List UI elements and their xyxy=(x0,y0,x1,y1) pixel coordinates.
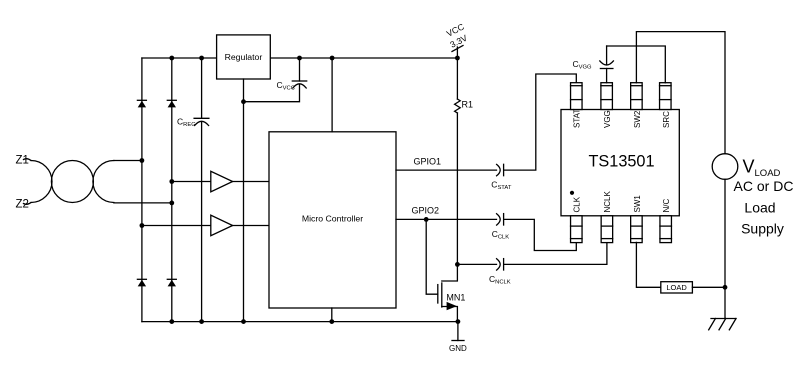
transformer T1 xyxy=(31,161,114,203)
wire transformer top lead xyxy=(114,160,142,162)
buffer A1 xyxy=(211,171,233,192)
svg-text:NCLK: NCLK xyxy=(603,190,612,212)
svg-text:AC or DC: AC or DC xyxy=(734,178,794,194)
junction top lead / column1 xyxy=(140,158,145,163)
pin NCLK xyxy=(601,190,613,242)
wire buffer A2 input xyxy=(142,225,211,227)
wire CCLK to CLK pin xyxy=(505,219,577,250)
load LOAD xyxy=(661,282,693,293)
ground GND xyxy=(452,322,464,341)
svg-text:SW2: SW2 xyxy=(633,110,642,128)
junction top rail column2 xyxy=(169,56,174,61)
pin STAT xyxy=(571,83,583,128)
wire load supply negative xyxy=(724,179,726,287)
junction NCLK node xyxy=(455,262,460,267)
microcontroller U3 xyxy=(269,132,396,308)
wire microcontroller to ground rail xyxy=(331,308,333,322)
wire CVCC bottom return xyxy=(244,84,300,102)
junction top rail CVCC xyxy=(297,56,302,61)
junction buffer A2 input xyxy=(140,223,145,228)
wire CVGG top xyxy=(606,46,608,65)
wire VCC to R1 xyxy=(456,58,458,99)
resistor R1 xyxy=(455,99,461,113)
junction MN1 source / ground rail xyxy=(456,319,461,324)
wire VCC to microcontroller xyxy=(331,58,333,132)
capacitor CVCC xyxy=(292,81,306,88)
node Z2 xyxy=(24,203,32,205)
svg-text:N/C: N/C xyxy=(662,199,671,213)
svg-text:Z1: Z1 xyxy=(16,155,29,167)
wire rectifier column 2 xyxy=(171,58,173,322)
junction supply return xyxy=(723,285,728,290)
junction buffer A1 input xyxy=(169,179,174,184)
junction bottom rail column4 xyxy=(241,319,246,324)
diode D4 xyxy=(167,279,176,286)
op-amp U1 TS13501 body xyxy=(561,110,679,216)
transistor MN1 xyxy=(438,264,458,321)
svg-text:Supply: Supply xyxy=(741,221,784,237)
wire buffer A2 output xyxy=(233,225,269,227)
source VLOAD xyxy=(712,154,738,180)
svg-text:TS13501: TS13501 xyxy=(588,153,654,171)
wire buffer A1 output xyxy=(233,181,269,183)
wire rectifier column 1 xyxy=(141,58,143,322)
svg-text:SRC: SRC xyxy=(662,111,671,128)
wire CVGG to SRC pin xyxy=(607,46,666,83)
wire NCLK node xyxy=(457,263,496,265)
capacitor CSTAT xyxy=(497,164,504,176)
pin VGG xyxy=(601,83,613,128)
junction CVCC return xyxy=(241,99,246,104)
diode D2 xyxy=(167,100,176,107)
wire SW1 to LOAD xyxy=(636,242,660,287)
wire GPIO1 xyxy=(396,169,497,171)
wire LOAD to supply node xyxy=(692,286,725,288)
svg-text:GPIO2: GPIO2 xyxy=(412,206,440,216)
diode D3 xyxy=(137,279,146,286)
svg-text:GND: GND xyxy=(449,344,467,353)
junction VCC node xyxy=(455,56,460,61)
pin N/C xyxy=(660,199,672,243)
wire GPIO2 xyxy=(396,218,497,220)
svg-text:Z2: Z2 xyxy=(16,199,29,211)
pin SRC xyxy=(660,83,672,128)
pin SW2 xyxy=(631,83,643,128)
junction top rail column3 xyxy=(199,56,204,61)
buffer A2 xyxy=(211,215,233,236)
wire CNCLK to NCLK pin xyxy=(505,242,607,264)
wire CVCC top xyxy=(299,58,301,81)
junction bottom rail column2 xyxy=(169,319,174,324)
wire bottom rail xyxy=(142,321,458,323)
junction GPIO2 gate tap xyxy=(424,217,429,222)
svg-text:Load: Load xyxy=(744,200,775,216)
svg-text:CLK: CLK xyxy=(572,196,581,212)
capacitor CVGG xyxy=(600,61,614,69)
svg-text:VGG: VGG xyxy=(603,110,612,128)
svg-text:R1: R1 xyxy=(462,100,474,110)
wire transformer bottom lead xyxy=(114,202,172,204)
pin CLK xyxy=(571,196,583,242)
wire to earth ground xyxy=(724,287,726,318)
power VCC 3.3V xyxy=(445,22,469,58)
junction bottom rail column3 xyxy=(199,319,204,324)
svg-text:LOAD: LOAD xyxy=(666,283,687,292)
wire regulator output column xyxy=(243,79,245,322)
ground earth xyxy=(709,319,736,330)
svg-text:SW1: SW1 xyxy=(633,195,642,213)
svg-text:STAT: STAT xyxy=(572,109,581,128)
pin 1 marker xyxy=(570,191,574,195)
wire CVGG to VGG pin xyxy=(606,69,608,83)
junction bottom lead / column2 xyxy=(169,201,174,206)
wire top rail xyxy=(142,57,458,59)
wire GPIO2 to MN1 gate xyxy=(426,219,438,294)
regulator U2 xyxy=(217,35,271,79)
wire buffer A1 input xyxy=(172,181,211,183)
junction top rail microcontroller xyxy=(330,56,335,61)
wire SW2 to load supply xyxy=(636,32,725,154)
diode D1 xyxy=(137,100,146,107)
capacitor CNCLK xyxy=(497,259,504,271)
wire CREG column xyxy=(201,58,203,322)
capacitor CCLK xyxy=(497,214,504,226)
capacitor CREG xyxy=(194,118,209,125)
svg-text:MN1: MN1 xyxy=(446,293,465,303)
junction bottom rail microcontroller xyxy=(329,319,334,324)
svg-text:GPIO1: GPIO1 xyxy=(414,157,442,167)
svg-text:Micro Controller: Micro Controller xyxy=(302,214,363,224)
node Z1 xyxy=(24,159,32,161)
svg-text:Regulator: Regulator xyxy=(225,52,263,62)
pin SW1 xyxy=(631,195,643,243)
wire CSTAT to STAT pin xyxy=(505,74,577,170)
wire R1 to NCLK node xyxy=(456,113,458,264)
